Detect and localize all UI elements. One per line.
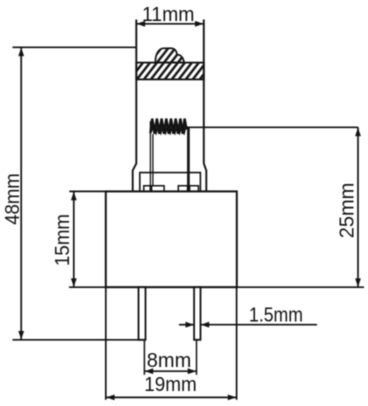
body bottom extension line: [69, 286, 364, 288]
dimension 19mm: left arrowhead: [106, 395, 115, 401]
dimension 15mm: down arrowhead: [71, 278, 77, 287]
svg-text:1.5mm: 1.5mm: [249, 305, 303, 327]
contact tab outer-right: [190, 186, 199, 192]
dimension 48mm: dimension line: [20, 47, 22, 340]
dimension 8mm: right arrowhead: [188, 368, 197, 374]
dimension 25mm: dimension line: [357, 127, 359, 287]
filament lead wire right (thick): [187, 127, 190, 192]
dimension 19mm: dimension line: [106, 396, 237, 398]
pinch seal outline: [140, 173, 201, 192]
dimension 48mm: bottom reference line: [13, 339, 146, 341]
contact tab inner-left: [152, 186, 165, 192]
glass top seal hatched band: [136, 63, 204, 80]
dimension 48mm: top reference line: [13, 46, 137, 48]
dimension 11mm: left arrowhead: [137, 21, 146, 27]
svg-text:19mm: 19mm: [144, 374, 197, 396]
filament coil: [150, 119, 186, 134]
contact tab inner-right: [178, 186, 187, 192]
dimension 25mm: up arrowhead: [355, 128, 361, 137]
dimension 19mm: right extension line (body edge extended): [236, 287, 238, 400]
svg-text:48mm: 48mm: [2, 173, 24, 225]
filament lead wire left (double line): [150, 121, 153, 191]
dimension 19mm: left extension line (body edge extended): [105, 287, 107, 400]
bulb glass right edge: [204, 20, 207, 192]
dimension 15mm: dimension line: [73, 191, 75, 287]
svg-text:8mm: 8mm: [147, 350, 192, 372]
dimension 15mm: up arrowhead: [71, 192, 77, 201]
base pin left: [139, 287, 146, 340]
contact tab outer-left: [144, 186, 151, 192]
svg-text:25mm: 25mm: [337, 183, 359, 239]
svg-text:11mm: 11mm: [142, 4, 195, 26]
dimension 25mm: down arrowhead: [355, 278, 361, 287]
dimension 11mm: dimension line: [136, 23, 204, 25]
exhaust tip bump (hatched dome): [155, 48, 184, 62]
dimension 8mm: right extension line: [196, 341, 198, 375]
dimension 1.5mm: left arrow with tail: [179, 324, 194, 326]
lamp base body: [106, 191, 237, 287]
dimension 8mm: dimension line: [144, 370, 196, 372]
dimension 48mm: up arrowhead: [18, 48, 24, 57]
svg-text:15mm: 15mm: [52, 214, 74, 266]
bulb glass left edge: [133, 20, 137, 192]
dimension 8mm: left arrowhead: [145, 368, 154, 374]
dimension 15mm: top reference line: [69, 190, 106, 192]
dimension 25mm: leader line from filament: [187, 126, 359, 128]
dimension 48mm: down arrowhead: [18, 331, 24, 340]
dimension 1.5mm: right arrow with tail: [201, 324, 317, 326]
dimension 8mm: left extension line: [143, 341, 145, 375]
dimension 11mm: right arrowhead: [195, 21, 204, 27]
base pin right: [194, 287, 200, 340]
dimension 19mm: right arrowhead: [228, 395, 237, 401]
